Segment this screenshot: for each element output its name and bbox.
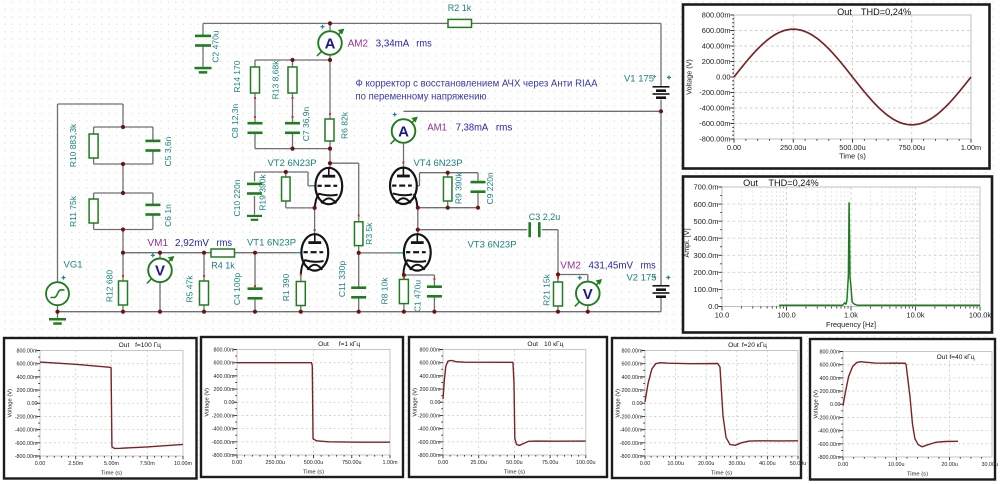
svg-text:10.0k: 10.0k [906, 311, 924, 320]
svg-text:30.00u: 30.00u [729, 461, 746, 467]
svg-text:1.0k: 1.0k [844, 311, 858, 320]
svg-text:0.00: 0.00 [830, 402, 841, 408]
svg-text:R14 170: R14 170 [232, 60, 242, 92]
svg-text:10.00u: 10.00u [888, 462, 905, 468]
svg-text:1.00m: 1.00m [961, 143, 981, 152]
svg-text:R13 8,68k: R13 8,68k [270, 60, 280, 99]
svg-text:200.00m: 200.00m [622, 388, 643, 394]
svg-text:3,34mA: 3,34mA [376, 39, 410, 50]
svg-text:800.00m: 800.00m [702, 11, 731, 20]
svg-text:C10 220n: C10 220n [232, 179, 242, 216]
svg-text:2.50m: 2.50m [68, 461, 83, 467]
svg-text:Time (s): Time (s) [303, 470, 324, 476]
svg-text:10 кГц: 10 кГц [544, 341, 564, 348]
svg-text:200.00m: 200.00m [214, 387, 235, 393]
svg-text:400.00m: 400.00m [17, 375, 38, 381]
svg-text:200.0m: 200.0m [693, 268, 718, 277]
svg-text:f=40 кГц: f=40 кГц [949, 354, 974, 361]
svg-text:Out: Out [527, 341, 538, 348]
svg-text:C11 330p: C11 330p [337, 261, 347, 298]
svg-text:-200.00m: -200.00m [418, 413, 441, 419]
svg-text:VT4 6N23P: VT4 6N23P [413, 158, 462, 169]
svg-text:100.0k: 100.0k [969, 311, 991, 320]
svg-text:R12 680: R12 680 [105, 270, 115, 302]
svg-text:-600.00m: -600.00m [15, 441, 38, 447]
svg-text:0.00: 0.00 [224, 400, 235, 406]
svg-text:-400.00m: -400.00m [620, 428, 643, 434]
svg-text:25.00u: 25.00u [470, 460, 487, 466]
svg-text:C9 220n: C9 220n [485, 172, 495, 204]
svg-text:R1 390: R1 390 [281, 274, 291, 302]
svg-text:100.00u: 100.00u [576, 460, 596, 466]
svg-text:800.00m: 800.00m [622, 348, 643, 354]
svg-text:0.00: 0.00 [430, 400, 441, 406]
svg-text:R21 15k: R21 15k [541, 273, 551, 305]
svg-text:250.00u: 250.00u [266, 460, 286, 466]
svg-text:Out: Out [119, 342, 130, 349]
svg-text:400.0m: 400.0m [693, 234, 718, 243]
svg-text:Out: Out [837, 7, 852, 17]
svg-text:400.00m: 400.00m [214, 374, 235, 380]
svg-text:Time (s): Time (s) [504, 470, 525, 476]
svg-text:rms: rms [416, 39, 431, 50]
svg-text:VM2: VM2 [560, 261, 581, 272]
svg-text:10.00u: 10.00u [667, 461, 684, 467]
svg-text:0.00: 0.00 [27, 401, 38, 407]
svg-text:10.0: 10.0 [715, 311, 729, 320]
svg-text:200.00m: 200.00m [420, 387, 441, 393]
svg-text:C5 3,6n: C5 3,6n [163, 136, 173, 166]
svg-text:C7 36,9n: C7 36,9n [301, 106, 311, 141]
svg-text:VM1: VM1 [148, 238, 169, 249]
svg-text:-600.00m: -600.00m [818, 442, 841, 448]
svg-text:Voltage (V): Voltage (V) [685, 59, 694, 95]
svg-text:75.00u: 75.00u [542, 460, 559, 466]
svg-text:R3 5k: R3 5k [364, 222, 374, 245]
svg-text:C4 100p: C4 100p [232, 273, 242, 305]
svg-text:-600.00m: -600.00m [212, 440, 235, 446]
svg-text:600.0m: 600.0m [693, 200, 718, 209]
svg-text:AM1: AM1 [427, 123, 447, 134]
svg-text:-400.00m: -400.00m [818, 429, 841, 435]
svg-text:Out: Out [728, 342, 739, 349]
svg-text:200.00m: 200.00m [17, 388, 38, 394]
svg-text:THD=0,24%: THD=0,24% [768, 178, 818, 188]
svg-text:600.00m: 600.00m [17, 362, 38, 368]
svg-text:20.00u: 20.00u [941, 462, 958, 468]
svg-text:R8 10k: R8 10k [380, 277, 390, 305]
svg-text:-800.00m: -800.00m [620, 454, 643, 460]
svg-text:Ampl. [V]: Ampl. [V] [682, 228, 691, 257]
svg-text:-400.00m: -400.00m [212, 427, 235, 433]
svg-text:0.00: 0.00 [438, 460, 449, 466]
svg-text:-200.00m: -200.00m [15, 414, 38, 420]
svg-text:THD=0,24%: THD=0,24% [861, 7, 911, 17]
svg-text:Out: Out [937, 354, 948, 361]
svg-text:600.00m: 600.00m [420, 361, 441, 367]
svg-text:500.0m: 500.0m [693, 217, 718, 226]
svg-text:600.00m: 600.00m [702, 26, 731, 35]
svg-text:V2 175: V2 175 [626, 273, 656, 284]
svg-text:Time (s): Time (s) [711, 471, 732, 477]
svg-text:40.00u: 40.00u [759, 461, 776, 467]
svg-text:VT1 6N23P: VT1 6N23P [247, 238, 296, 249]
svg-text:R4 1k: R4 1k [211, 261, 235, 271]
svg-text:-800.00m: -800.00m [15, 454, 38, 460]
svg-text:Voltage (V): Voltage (V) [616, 389, 622, 418]
svg-text:C8 12,3n: C8 12,3n [230, 103, 240, 138]
svg-text:f=20 кГц: f=20 кГц [742, 342, 767, 349]
svg-text:100.0m: 100.0m [693, 285, 718, 294]
svg-text:20.00u: 20.00u [698, 461, 715, 467]
svg-text:750.00u: 750.00u [899, 143, 925, 152]
svg-text:-200.00m: -200.00m [818, 415, 841, 421]
svg-text:R9 390k: R9 390k [453, 172, 463, 204]
svg-text:-600.00m: -600.00m [418, 440, 441, 446]
svg-text:500.00u: 500.00u [304, 460, 324, 466]
svg-text:Frequency [Hz]: Frequency [Hz] [826, 320, 876, 329]
svg-text:VT3 6N23P: VT3 6N23P [467, 240, 516, 251]
svg-text:-600.00m: -600.00m [699, 119, 730, 128]
svg-text:rms: rms [641, 261, 656, 272]
svg-text:-200.00m: -200.00m [620, 414, 643, 420]
svg-text:0.00: 0.00 [640, 461, 651, 467]
svg-text:по переменному напряжению: по переменному напряжению [356, 92, 487, 103]
svg-text:100.0: 100.0 [777, 311, 796, 320]
svg-text:2,92mV: 2,92mV [175, 238, 209, 249]
svg-text:rms: rms [217, 238, 233, 249]
svg-text:V1 175: V1 175 [624, 74, 654, 85]
svg-text:0.00: 0.00 [727, 143, 741, 152]
svg-text:Time (s): Time (s) [101, 471, 122, 477]
svg-text:0.00: 0.00 [232, 460, 243, 466]
svg-text:Out: Out [318, 341, 329, 348]
svg-text:7,38mA: 7,38mA [456, 123, 489, 134]
svg-text:R5 47k: R5 47k [185, 275, 195, 303]
svg-text:-800.00m: -800.00m [418, 453, 441, 459]
svg-text:Time (s): Time (s) [907, 472, 928, 478]
svg-text:-200.00m: -200.00m [699, 88, 730, 97]
svg-text:Voltage (V): Voltage (V) [413, 388, 419, 417]
svg-text:R10 883,3k: R10 883,3k [68, 123, 78, 167]
svg-text:V: V [583, 286, 593, 303]
svg-text:-600.00m: -600.00m [620, 441, 643, 447]
svg-text:rms: rms [496, 123, 513, 134]
svg-text:-400.00m: -400.00m [418, 427, 441, 433]
svg-text:R2 1k: R2 1k [448, 3, 472, 13]
svg-text:R11 75k: R11 75k [68, 195, 78, 227]
svg-text:C3 2,2u: C3 2,2u [529, 212, 561, 222]
svg-text:R6 82k: R6 82k [340, 111, 350, 139]
svg-text:Voltage (V): Voltage (V) [205, 388, 211, 417]
svg-text:0.00: 0.00 [35, 461, 46, 467]
svg-text:750.00u: 750.00u [342, 460, 362, 466]
svg-text:300.0m: 300.0m [693, 251, 718, 260]
svg-text:AM2: AM2 [348, 39, 369, 50]
svg-text:700.0m: 700.0m [693, 183, 718, 192]
svg-text:Out: Out [743, 178, 758, 188]
svg-text:f=1 кГц: f=1 кГц [339, 341, 361, 348]
svg-text:10.00m: 10.00m [174, 461, 192, 467]
svg-text:5.00m: 5.00m [104, 461, 119, 467]
svg-text:250.00u: 250.00u [780, 143, 806, 152]
svg-text:Ф корректор с восстановлением: Ф корректор с восстановлением АЧХ через … [356, 79, 598, 90]
svg-text:-800.00m: -800.00m [818, 455, 841, 461]
svg-text:400.00m: 400.00m [622, 375, 643, 381]
svg-text:1.00m: 1.00m [383, 460, 398, 466]
svg-text:200.00m: 200.00m [702, 57, 731, 66]
svg-text:Voltage (V): Voltage (V) [8, 389, 14, 418]
svg-text:VG1: VG1 [63, 260, 82, 271]
svg-text:30.00u: 30.00u [982, 462, 999, 468]
svg-text:50.00u: 50.00u [506, 460, 523, 466]
svg-text:Time (s): Time (s) [839, 152, 866, 161]
svg-text:400.00m: 400.00m [420, 374, 441, 380]
svg-text:400.00m: 400.00m [820, 376, 841, 382]
svg-text:7.50m: 7.50m [140, 461, 155, 467]
svg-text:400.00m: 400.00m [702, 42, 731, 51]
svg-text:431,45mV: 431,45mV [589, 261, 634, 272]
svg-text:-200.00m: -200.00m [212, 413, 235, 419]
svg-text:V: V [155, 263, 165, 280]
svg-text:C6 1n: C6 1n [163, 204, 173, 227]
svg-text:800.00m: 800.00m [820, 349, 841, 355]
svg-text:600.00m: 600.00m [214, 361, 235, 367]
svg-text:50.00u: 50.00u [790, 461, 807, 467]
svg-text:f=100 Гц: f=100 Гц [135, 342, 161, 349]
svg-text:-400.00m: -400.00m [699, 104, 730, 113]
svg-text:200.00m: 200.00m [820, 389, 841, 395]
svg-text:-400.00m: -400.00m [15, 428, 38, 434]
svg-text:A: A [325, 35, 336, 52]
svg-text:0.00: 0.00 [716, 73, 730, 82]
svg-text:0.00: 0.00 [632, 401, 643, 407]
svg-text:-800.00m: -800.00m [212, 453, 235, 459]
svg-text:0.00: 0.00 [838, 462, 849, 468]
svg-text:800.00m: 800.00m [420, 347, 441, 353]
svg-text:800.00m: 800.00m [214, 347, 235, 353]
svg-text:C2 470u: C2 470u [211, 30, 221, 62]
svg-text:A: A [398, 123, 409, 140]
svg-text:VT2 6N23P: VT2 6N23P [267, 158, 316, 169]
svg-text:C1 470u: C1 470u [413, 280, 423, 312]
svg-text:R19 390k: R19 390k [258, 174, 268, 211]
svg-text:600.00m: 600.00m [622, 362, 643, 368]
svg-text:-800.00m: -800.00m [699, 135, 730, 144]
svg-text:Voltage (V): Voltage (V) [814, 390, 820, 419]
svg-text:800.00m: 800.00m [17, 348, 38, 354]
svg-text:600.00m: 600.00m [820, 363, 841, 369]
